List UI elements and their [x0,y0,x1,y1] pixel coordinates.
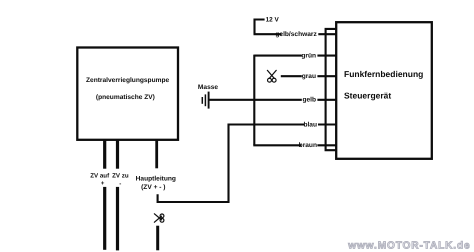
scissors cut on grau wire [267,70,276,82]
box U1 Zentralverrieglungspumpe [77,48,178,140]
box U2 Funkfernbedienung Steuergeraet [336,22,432,159]
svg-text:(pneumatische ZV): (pneumatische ZV) [96,94,155,101]
wire Hauptleitung lower [156,226,159,251]
wire blau [229,121,338,128]
svg-text:12 V: 12 V [266,17,280,24]
bus left vertical (gruen to braun) [253,55,255,146]
svg-text:Masse: Masse [198,84,218,91]
svg-text:(ZV + - ): (ZV + - ) [141,184,165,191]
wire gelb/schwarz [254,31,338,38]
svg-text:gelb/schwarz: gelb/schwarz [275,31,317,38]
svg-text:www.MOTOR-TALK.de: www.MOTOR-TALK.de [347,241,470,252]
svg-text:Zentralverrieglungspumpe: Zentralverrieglungspumpe [86,77,170,84]
scissors cut on Hauptleitung [154,214,164,222]
wire gruen [254,52,337,59]
svg-text:Funkfernbedienung: Funkfernbedienung [344,69,423,79]
wire blau drop to Hauptleitung [158,124,229,203]
wire grau [281,73,337,80]
svg-text:ZV auf: ZV auf [90,173,110,180]
svg-text:blau: blau [303,121,317,128]
label Hauptleitung (ZV + -) [136,176,176,191]
svg-text:ZV zu: ZV zu [112,173,129,180]
node 12V [255,17,280,35]
label ZV auf + [90,173,110,187]
svg-text:grün: grün [301,52,316,59]
wire ZV auf (+) from U1 [103,140,106,250]
wire gelb (Masse to U2) [209,97,337,104]
svg-text:-: - [119,180,121,187]
wire ZV zu (-) from U1 [116,140,119,251]
connector strip J1 on U2 left side [326,29,337,150]
svg-text:Steuergerät: Steuergerät [344,91,391,101]
wire Hauptleitung upper [155,140,158,169]
svg-text:Hauptleitung: Hauptleitung [136,176,176,183]
wire braun [253,142,337,149]
svg-text:gelb: gelb [302,97,316,104]
svg-text:braun: braun [299,142,317,149]
label ZV zu - [112,173,129,188]
node Masse (ground symbol) [198,84,218,109]
svg-text:+: + [101,180,105,187]
svg-text:grau: grau [302,73,316,80]
